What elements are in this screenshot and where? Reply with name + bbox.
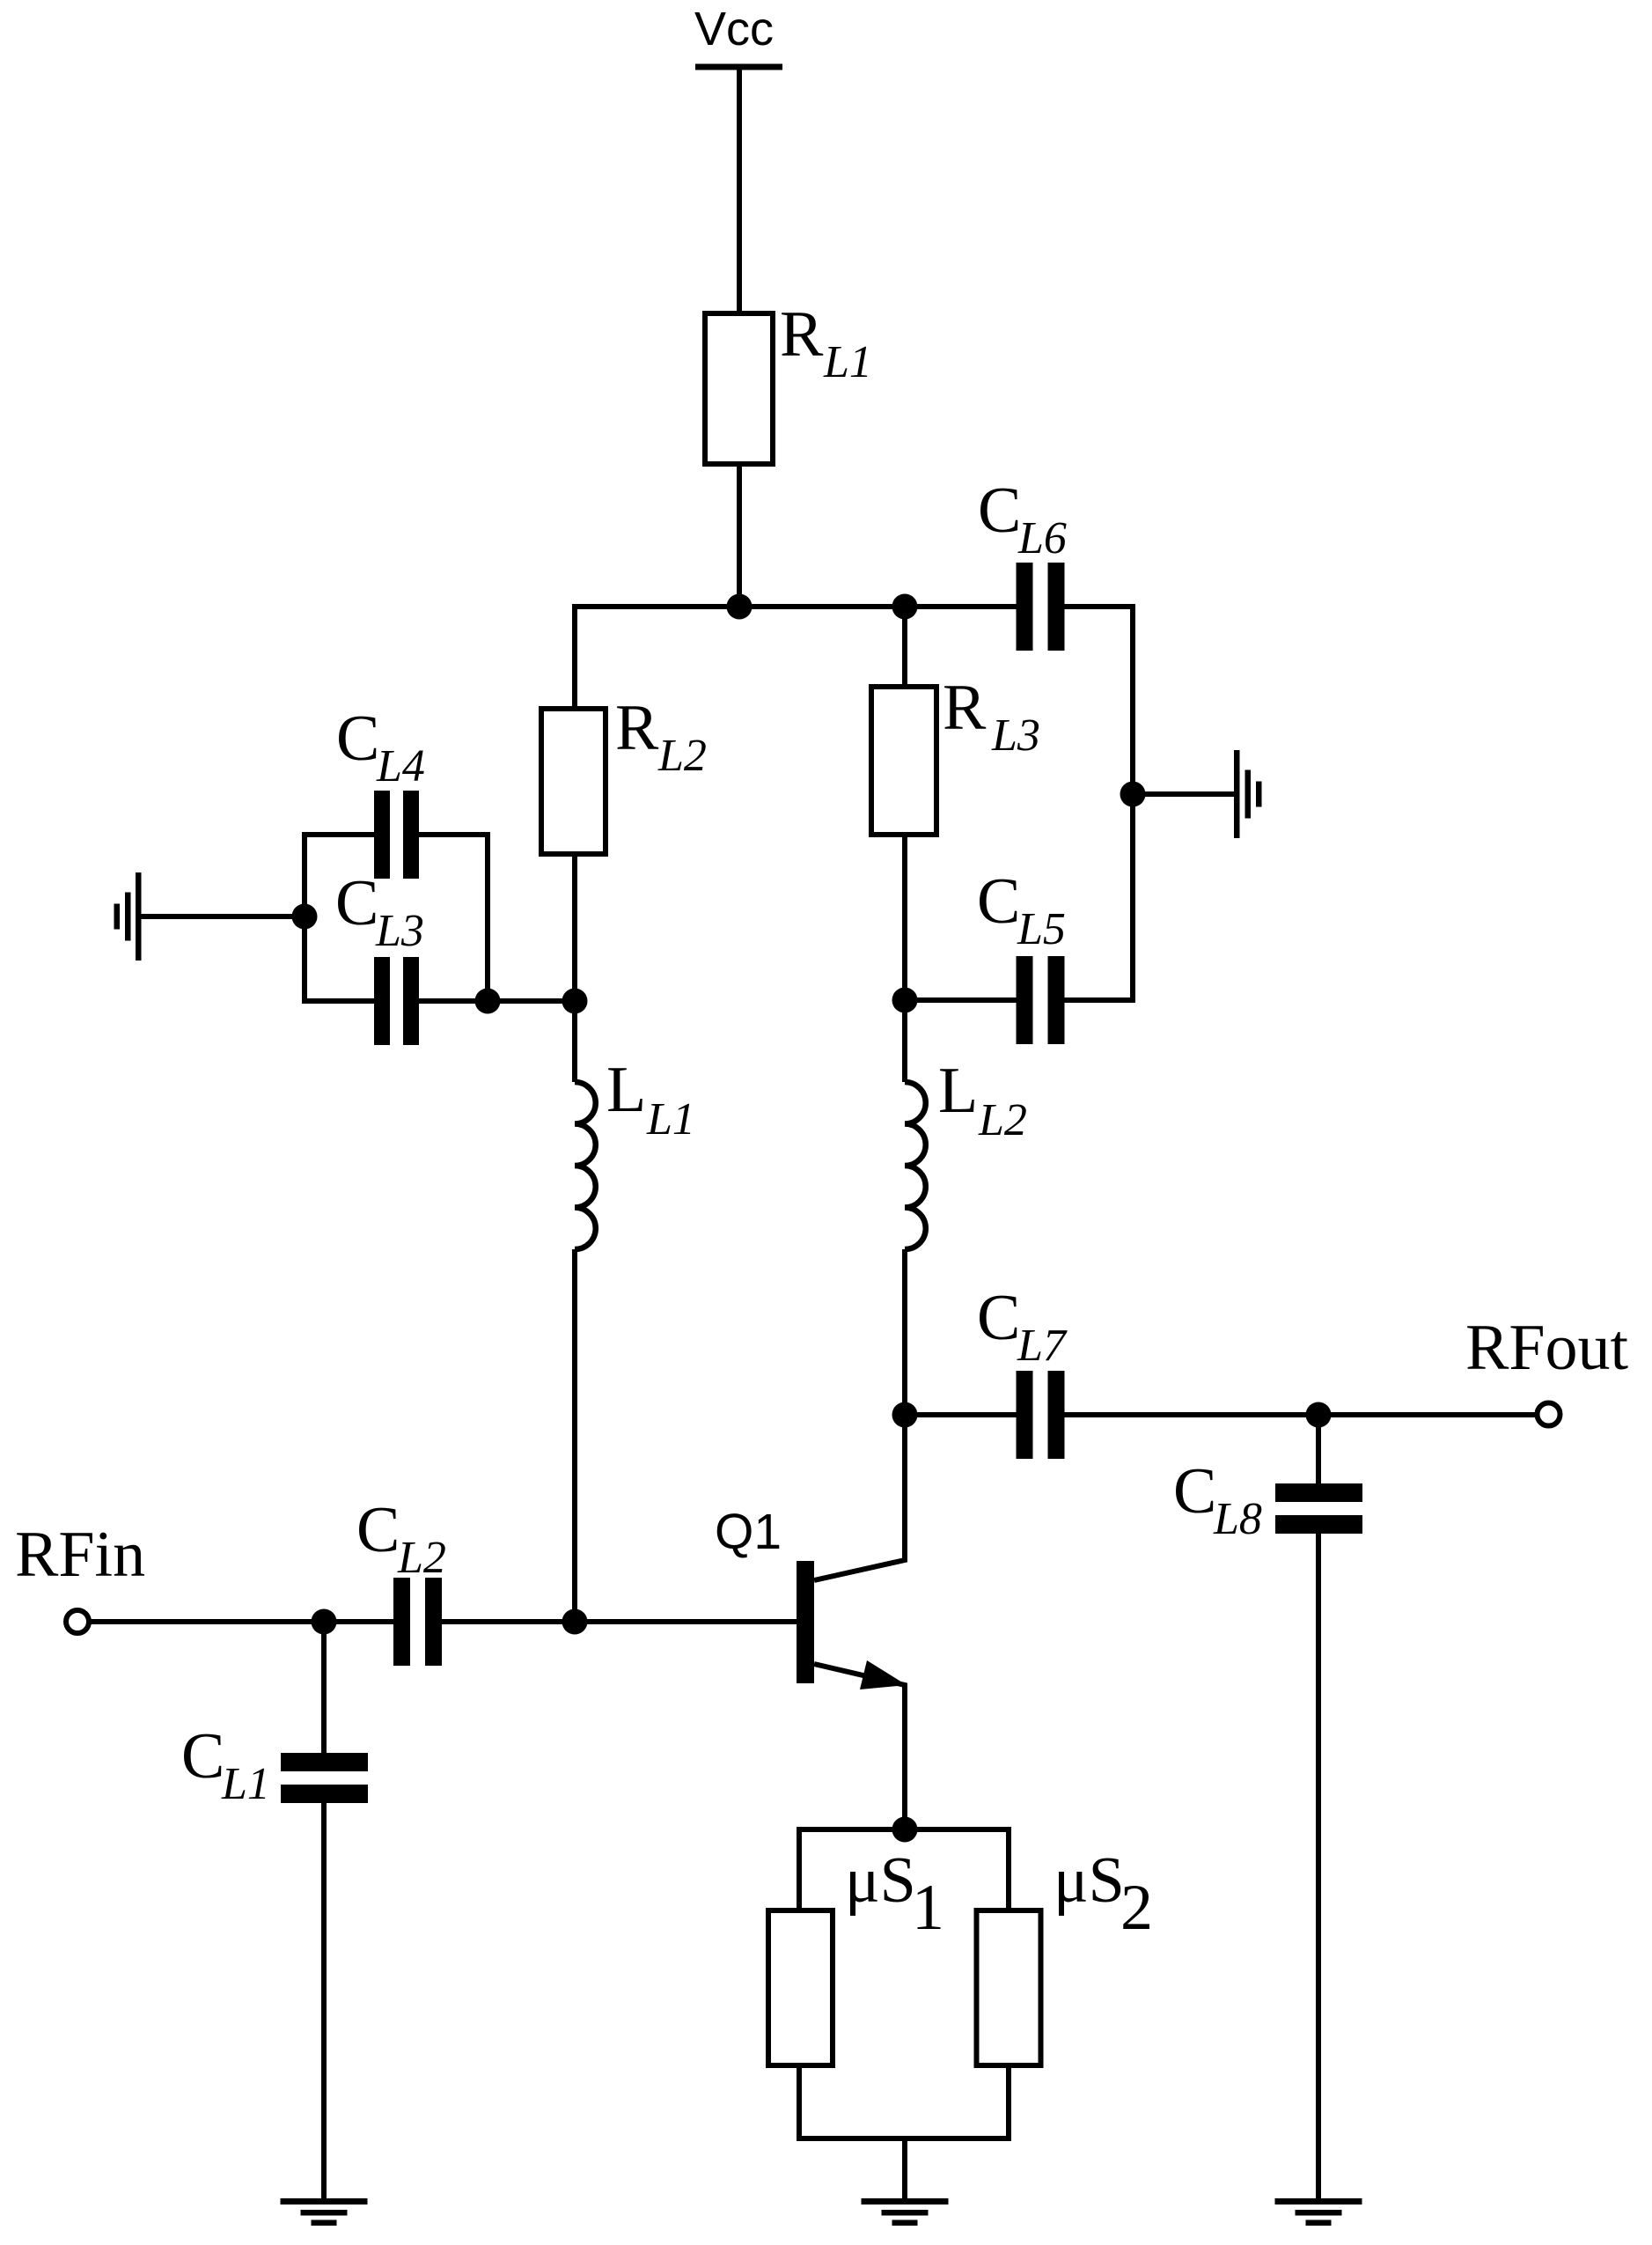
wire C_L3 bottom rail right to L_L1 node [419, 998, 575, 1004]
resistor R_L3 [871, 672, 1040, 835]
svg-text:Vcc: Vcc [694, 3, 774, 55]
svg-text:Q1: Q1 [715, 1504, 782, 1560]
wire C_L6 right branch down to C_L5 [1065, 607, 1134, 1000]
wire bus to R_L3 [902, 607, 907, 687]
svg-text:L8: L8 [1213, 1494, 1262, 1544]
Vcc power symbol [694, 3, 782, 67]
svg-text:C: C [181, 1720, 224, 1792]
wire C_L2 to base [442, 1619, 797, 1624]
wire C_L3 node to L_L1 [572, 1001, 577, 1082]
wire R_L1 to collector bus [737, 464, 742, 607]
svg-text:C: C [977, 865, 1020, 938]
svg-text:R: R [615, 692, 659, 764]
wire bottom rail to ground [902, 2138, 907, 2198]
svg-text:C: C [336, 703, 379, 775]
wire ground stub to C-block [141, 914, 305, 919]
ground (bottom left) [281, 2198, 368, 2226]
RFout terminal [1465, 1312, 1629, 1426]
wire C_L8 node down to plates [1316, 1415, 1321, 1483]
wire R_L2 to C_L3 node [572, 854, 577, 1001]
svg-text:L1: L1 [823, 337, 872, 387]
wire R_L3 to C_L5 node [902, 835, 907, 1000]
microstrip stub uS1 [768, 1844, 944, 2065]
capacitor C_L6 [978, 475, 1067, 651]
svg-text:L5: L5 [1017, 904, 1066, 954]
svg-text:L7: L7 [1017, 1321, 1068, 1371]
svg-text:L: L [938, 1055, 978, 1127]
wire C_L7 to RFout [1065, 1412, 1538, 1417]
svg-text:RFout: RFout [1465, 1312, 1629, 1384]
node emitter to microstrips [892, 1817, 918, 1843]
wire C_L4 top rail left [305, 832, 374, 837]
microstrip stub uS2 [977, 1844, 1154, 2065]
node C-block right on bottom rail [475, 989, 501, 1014]
node collector row [892, 1402, 918, 1428]
wire microstrip bottom rail [799, 2065, 1009, 2138]
svg-text:C: C [977, 1282, 1020, 1354]
capacitor C_L3 [335, 867, 424, 1045]
wire C_L8 to ground [1316, 1534, 1321, 2198]
ground (bottom center) [862, 2198, 949, 2226]
svg-text:C: C [335, 867, 378, 939]
wire microstrip top rail [799, 1829, 1009, 1910]
wire C_L3 bottom rail left [305, 998, 374, 1004]
svg-text:μS: μS [845, 1844, 916, 1917]
node L_L1 top [562, 989, 588, 1014]
wire RFin to C_L2 [89, 1619, 393, 1624]
wire C_L1 to ground [321, 1803, 327, 2198]
svg-text:L4: L4 [376, 741, 425, 791]
capacitor C_L5 [977, 865, 1066, 1044]
svg-text:2: 2 [1120, 1872, 1153, 1944]
node C_L1 top [312, 1609, 337, 1635]
svg-text:RFin: RFin [15, 1519, 145, 1591]
wire R_L3 node to L_L2 [902, 1000, 907, 1082]
resistor R_L1 [705, 298, 872, 464]
svg-text:L1: L1 [221, 1759, 270, 1809]
svg-text:1: 1 [912, 1872, 944, 1944]
wire C_L4 top rail right [419, 832, 488, 837]
svg-text:L3: L3 [375, 906, 424, 956]
capacitor C_L1 [181, 1720, 368, 1809]
svg-text:L2: L2 [978, 1095, 1027, 1145]
node C_L5 left [892, 988, 918, 1013]
wire L_L1 to base node [572, 1249, 577, 1622]
wire C-block left vertical [302, 832, 307, 1004]
ground (bottom right) [1275, 2198, 1362, 2226]
inductor L_L2 [905, 1055, 1027, 1249]
svg-text:R: R [943, 672, 987, 744]
wire C_L1 branch down [321, 1622, 327, 1753]
wire collector bus [575, 604, 1017, 609]
svg-text:C: C [356, 1494, 400, 1566]
capacitor C_L2 [356, 1494, 446, 1666]
transistor Q1 [715, 1415, 907, 1829]
svg-text:L2: L2 [397, 1533, 446, 1583]
svg-text:L6: L6 [1017, 513, 1067, 563]
wire right branch to ground [1133, 791, 1234, 797]
svg-text:μS: μS [1054, 1844, 1125, 1917]
wire bus left corner down to R_L2 [572, 604, 577, 709]
node bus at R_L3 [892, 594, 918, 620]
node C-block left at ground stub [292, 904, 318, 930]
node base at L_L1 branch [562, 1609, 588, 1635]
node bus at R_L1 [727, 594, 753, 620]
node C_L8 top [1306, 1402, 1332, 1428]
node right branch to ground [1120, 782, 1146, 807]
capacitor C_L8 [1173, 1455, 1362, 1544]
svg-text:L2: L2 [657, 731, 707, 781]
capacitor C_L4 [336, 703, 425, 879]
wire collector node to C_L7 [905, 1412, 1017, 1417]
svg-text:R: R [780, 298, 824, 371]
svg-text:C: C [978, 475, 1021, 547]
svg-text:L1: L1 [646, 1094, 695, 1145]
wire C-block right vertical [485, 832, 490, 1001]
ground (right mid, facing right) [1234, 750, 1262, 838]
wire Vcc to R_L1 [737, 70, 742, 313]
wire R_L3 node to C_L5 [905, 997, 1017, 1003]
svg-text:C: C [1173, 1455, 1216, 1527]
inductor L_L1 [575, 1054, 695, 1249]
svg-text:L3: L3 [991, 710, 1040, 761]
ground (left, facing left) [114, 872, 142, 961]
capacitor C_L7 [977, 1282, 1068, 1459]
RFin terminal [15, 1519, 145, 1633]
wire L_L2 to collector node [902, 1249, 907, 1415]
svg-text:L: L [606, 1054, 646, 1126]
resistor R_L2 [541, 692, 707, 854]
